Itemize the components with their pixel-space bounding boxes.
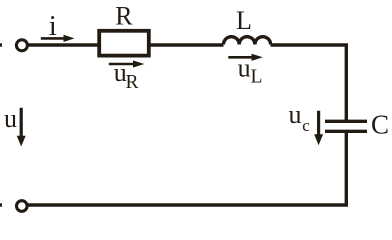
- svg-text:L: L: [251, 67, 263, 88]
- svg-text:C: C: [371, 110, 389, 140]
- svg-text:R: R: [115, 2, 133, 31]
- svg-text:u: u: [289, 100, 302, 129]
- svg-text:u: u: [238, 54, 251, 83]
- svg-text:c: c: [302, 116, 310, 135]
- svg-text:i: i: [49, 10, 57, 42]
- svg-text:u: u: [4, 104, 17, 133]
- svg-text:R: R: [126, 72, 139, 93]
- svg-text:L: L: [236, 6, 252, 35]
